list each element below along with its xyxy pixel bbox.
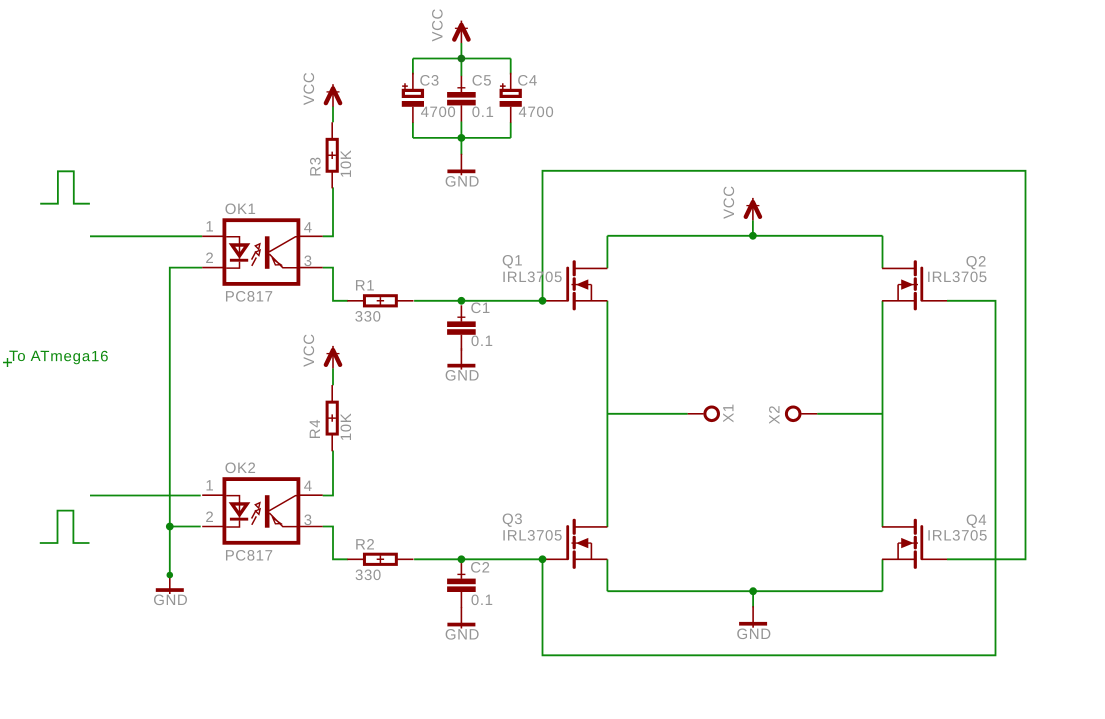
- svg-text:Q2: Q2: [966, 253, 987, 270]
- svg-text:IRL3705: IRL3705: [502, 269, 563, 286]
- svg-text:0.1: 0.1: [472, 104, 495, 121]
- svg-text:To ATmega16: To ATmega16: [9, 348, 109, 365]
- svg-text:OK1: OK1: [225, 201, 257, 218]
- svg-text:330: 330: [355, 309, 382, 326]
- svg-text:X1: X1: [721, 403, 738, 423]
- svg-text:OK2: OK2: [225, 460, 257, 477]
- svg-text:4700: 4700: [421, 104, 457, 121]
- svg-text:R2: R2: [355, 537, 375, 554]
- svg-text:Q3: Q3: [502, 511, 523, 528]
- svg-text:10K: 10K: [338, 150, 355, 179]
- svg-text:0.1: 0.1: [471, 333, 494, 350]
- svg-text:Q1: Q1: [502, 252, 523, 269]
- svg-text:C1: C1: [471, 300, 491, 317]
- svg-text:IRL3705: IRL3705: [927, 269, 988, 286]
- svg-text:IRL3705: IRL3705: [927, 527, 988, 544]
- svg-text:IRL3705: IRL3705: [502, 527, 563, 544]
- svg-text:Q4: Q4: [966, 512, 987, 529]
- svg-text:C3: C3: [420, 72, 440, 89]
- svg-text:C5: C5: [472, 72, 492, 89]
- svg-text:R4: R4: [307, 419, 324, 439]
- svg-text:0.1: 0.1: [471, 592, 494, 609]
- svg-text:4700: 4700: [519, 104, 555, 121]
- svg-text:X2: X2: [766, 405, 783, 425]
- svg-text:C4: C4: [517, 72, 537, 89]
- svg-text:R1: R1: [355, 278, 375, 295]
- svg-text:C2: C2: [470, 560, 490, 577]
- svg-text:R3: R3: [308, 156, 325, 176]
- svg-text:10K: 10K: [338, 413, 355, 442]
- svg-text:330: 330: [355, 567, 382, 584]
